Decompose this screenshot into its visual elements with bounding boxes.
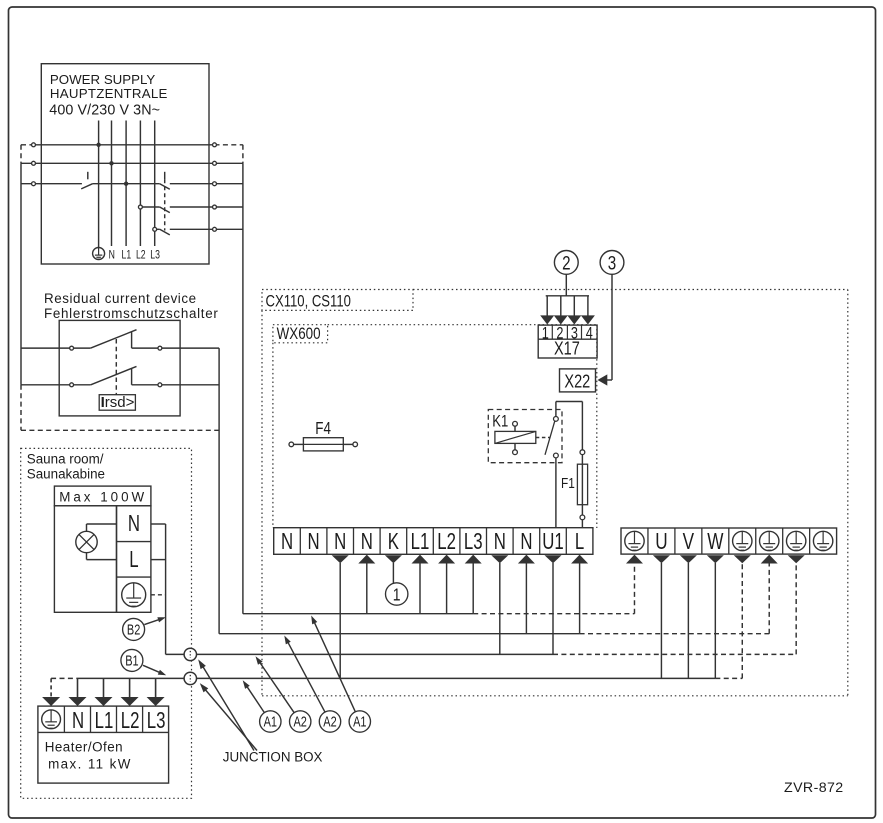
svg-text:B1: B1 — [125, 652, 138, 669]
svg-text:Saunakabine: Saunakabine — [27, 467, 105, 482]
svg-text:N: N — [128, 511, 140, 536]
svg-text:Irsd>: Irsd> — [101, 394, 135, 411]
svg-text:K1: K1 — [492, 412, 508, 431]
svg-text:F1: F1 — [561, 475, 575, 492]
svg-text:X17: X17 — [554, 338, 580, 359]
svg-text:JUNCTION BOX: JUNCTION BOX — [223, 750, 323, 765]
svg-text:2: 2 — [562, 252, 570, 274]
svg-text:L: L — [575, 529, 584, 554]
svg-text:L2: L2 — [136, 249, 146, 261]
svg-text:N: N — [334, 529, 346, 554]
svg-text:U1: U1 — [542, 529, 563, 554]
svg-text:max. 11 kW: max. 11 kW — [48, 756, 132, 771]
svg-text:N: N — [281, 529, 293, 554]
svg-text:L: L — [129, 547, 138, 572]
svg-text:Fehlerstromschutzschalter: Fehlerstromschutzschalter — [44, 306, 219, 321]
svg-text:N: N — [494, 529, 506, 554]
svg-text:N: N — [308, 529, 320, 554]
svg-text:Heater/Ofen: Heater/Ofen — [45, 739, 123, 754]
svg-text:V: V — [683, 528, 695, 554]
svg-text:WX600: WX600 — [277, 325, 321, 344]
svg-text:N: N — [520, 529, 532, 554]
svg-text:POWER SUPPLY: POWER SUPPLY — [50, 72, 156, 87]
svg-text:Max 100W: Max 100W — [59, 490, 147, 505]
svg-text:F4: F4 — [315, 420, 331, 439]
svg-text:4: 4 — [586, 325, 593, 343]
svg-text:N: N — [109, 249, 115, 261]
svg-text:HAUPTZENTRALE: HAUPTZENTRALE — [50, 86, 168, 101]
svg-text:B2: B2 — [127, 621, 140, 638]
svg-text:ZVR-872: ZVR-872 — [784, 780, 844, 796]
svg-text:N: N — [72, 709, 84, 734]
svg-text:W: W — [707, 528, 724, 554]
svg-text:U: U — [655, 528, 667, 554]
svg-text:L3: L3 — [147, 709, 166, 734]
svg-text:L3: L3 — [464, 529, 483, 554]
svg-text:A2: A2 — [323, 713, 336, 730]
svg-text:Sauna room/: Sauna room/ — [27, 451, 104, 466]
svg-text:3: 3 — [608, 252, 616, 274]
svg-text:N: N — [361, 529, 373, 554]
svg-text:L1: L1 — [95, 709, 114, 734]
svg-text:L1: L1 — [122, 249, 132, 261]
svg-text:1: 1 — [393, 586, 401, 605]
svg-text:Residual current device: Residual current device — [44, 291, 197, 306]
svg-text:CX110, CS110: CX110, CS110 — [266, 292, 351, 311]
svg-text:A1: A1 — [353, 713, 366, 730]
svg-text:1: 1 — [542, 325, 549, 343]
svg-text:L2: L2 — [121, 709, 140, 734]
svg-text:X22: X22 — [564, 371, 590, 392]
svg-text:400 V/230 V 3N~: 400 V/230 V 3N~ — [49, 103, 160, 119]
svg-text:A2: A2 — [294, 713, 307, 730]
svg-text:K: K — [388, 529, 400, 554]
svg-text:L1: L1 — [411, 529, 430, 554]
svg-text:L3: L3 — [150, 249, 160, 261]
svg-text:L2: L2 — [437, 529, 456, 554]
svg-text:A1: A1 — [264, 713, 277, 730]
